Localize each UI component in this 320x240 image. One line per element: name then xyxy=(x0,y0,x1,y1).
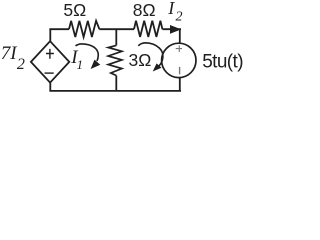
arrowhead of branch current I2 xyxy=(170,25,181,34)
minus sign inside diamond xyxy=(45,72,54,74)
svg-text:3Ω: 3Ω xyxy=(129,50,152,70)
bar mark inside circle xyxy=(179,67,181,74)
wire: 3Ω bottom lead xyxy=(115,76,117,92)
mesh current 2 arrowhead xyxy=(153,63,162,71)
wire: source circle bottom lead xyxy=(179,78,181,91)
svg-text:I2: I2 xyxy=(167,0,182,25)
mesh current I1 curved arrow arc xyxy=(76,44,99,61)
wire right vertical into source top xyxy=(179,29,181,43)
plus sign inside diamond xyxy=(46,49,54,59)
svg-text:5tu(t): 5tu(t) xyxy=(202,51,243,72)
plus sign inside circle xyxy=(176,45,182,52)
wire top rail left segment xyxy=(49,28,69,30)
resistor 8Ω zigzag xyxy=(134,21,162,37)
svg-text:5Ω: 5Ω xyxy=(63,0,86,20)
resistor 5Ω zigzag xyxy=(69,21,99,37)
resistor 3Ω vertical zigzag xyxy=(108,45,122,75)
mesh current 2 curved arrow arc xyxy=(138,43,163,66)
node: 3Ω top lead xyxy=(115,29,117,45)
wire riser from dependent source top to rail xyxy=(49,29,51,41)
svg-text:I1: I1 xyxy=(70,47,83,72)
wire top rail right segment xyxy=(162,28,181,30)
mesh current I1 arrowhead xyxy=(91,60,101,69)
svg-text:7I2: 7I2 xyxy=(1,43,25,73)
svg-text:8Ω: 8Ω xyxy=(133,0,156,20)
independent source circle 5tu(t) xyxy=(162,43,196,77)
wire: dependent source bottom stub xyxy=(49,82,51,91)
wire top rail middle segment xyxy=(99,28,134,30)
dependent voltage source diamond 7I2 xyxy=(31,41,69,82)
wire bottom rail xyxy=(49,90,181,92)
